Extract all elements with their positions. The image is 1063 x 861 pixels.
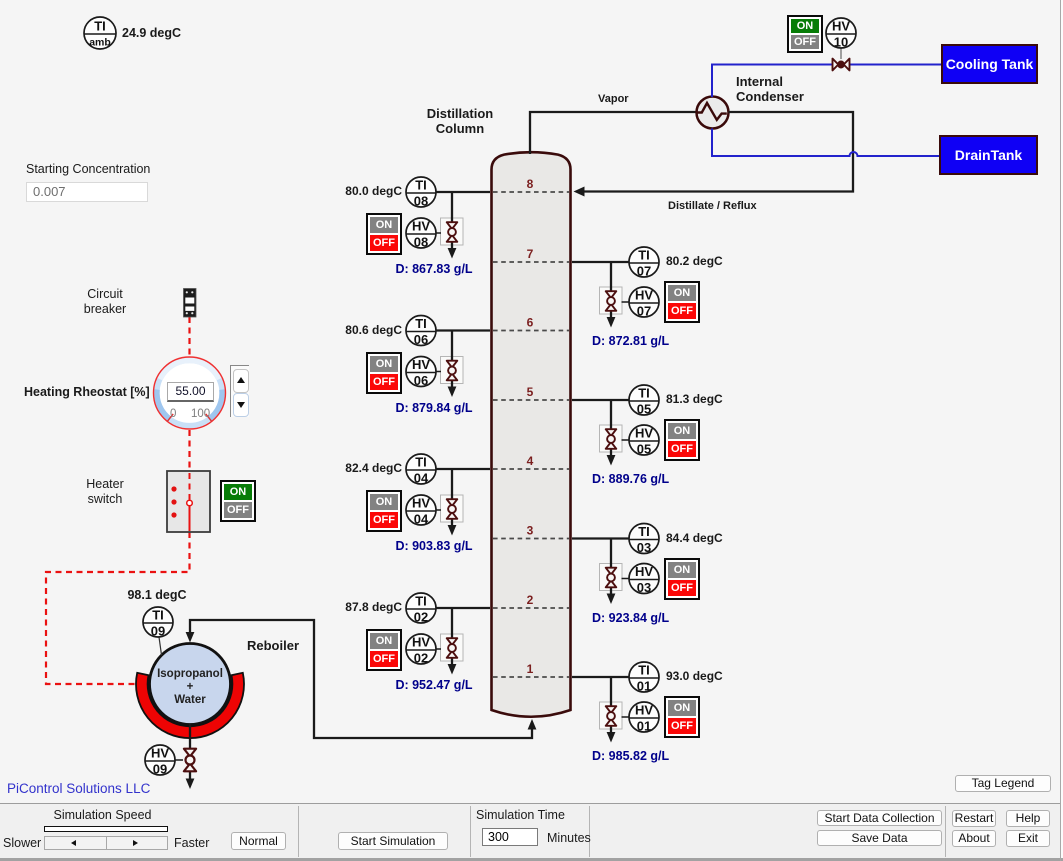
label vapor (598, 93, 648, 105)
switch HV-01 draw-off ON/OFF (664, 696, 700, 738)
input simulation time (482, 828, 538, 846)
label ambient temperature (122, 26, 212, 40)
svg-text:05: 05 (637, 442, 651, 457)
instrument TI-04 (406, 454, 436, 486)
input starting concentration (26, 182, 148, 202)
wire heater circuit (red dashed) breaker to rheostat (188, 317, 190, 356)
label minutes (547, 831, 607, 845)
scrollbar simulation speed (44, 836, 107, 850)
instrument TI-07 (629, 247, 659, 279)
label tray 7 density (592, 334, 722, 348)
slider progress bar (44, 826, 168, 832)
separator at x=589 (589, 806, 590, 857)
svg-text:HV: HV (635, 703, 653, 718)
button tag legend (955, 775, 1051, 792)
switch HV-06 draw-off ON/OFF (366, 352, 402, 394)
label slower (3, 836, 43, 850)
control bar background (0, 803, 1063, 859)
label simulation speed (40, 808, 165, 822)
label simulation time (476, 808, 586, 822)
svg-text:01: 01 (637, 719, 651, 734)
label tray 3 density (592, 611, 722, 625)
instrument HV-07 (629, 287, 659, 319)
svg-text:4: 4 (527, 454, 534, 468)
label tray 2 density (374, 678, 494, 692)
instrument TI-05 (629, 385, 659, 417)
svg-text:5: 5 (527, 385, 534, 399)
svg-text:3: 3 (527, 524, 534, 538)
tank cooling tank (941, 44, 1038, 84)
label tray 3 temperature (666, 531, 766, 545)
label reboiler (247, 638, 307, 653)
separator at x=470 (470, 806, 471, 857)
svg-text:TI: TI (415, 594, 427, 609)
wire tray 3 draw-off (right) (572, 539, 659, 605)
switch HV-10 cooling ON/OFF (787, 15, 823, 53)
svg-text:TI: TI (638, 524, 650, 539)
label tray 7 temperature (666, 254, 766, 268)
svg-text:04: 04 (414, 471, 429, 486)
wire reboiler drain (174, 724, 194, 789)
node tray 7 level (dashed) (493, 247, 569, 262)
svg-text:1: 1 (527, 662, 534, 676)
svg-text:8: 8 (527, 177, 534, 191)
svg-text:TI: TI (638, 386, 650, 401)
svg-text:02: 02 (414, 651, 428, 666)
button save data (817, 830, 942, 846)
wire vapor line (column top to condenser) (530, 112, 696, 154)
node tray 1 level (dashed) (493, 662, 569, 677)
wire heater circuit (red dashed) switch to heating mantle (46, 532, 190, 684)
button help (1006, 810, 1050, 827)
node tray 3 level (dashed) (493, 524, 569, 539)
label rheostat scale 100 (191, 408, 219, 420)
svg-text:TI: TI (638, 248, 650, 263)
wire tray 7 draw-off (right) (572, 262, 659, 328)
instrument TI-09 (reboiler temperature) (143, 607, 173, 639)
valve HV-04 draw-off (447, 499, 458, 519)
button start data collection (817, 810, 942, 826)
tank drain tank (939, 135, 1038, 175)
heater switch box (167, 471, 210, 532)
label tray 8 temperature (318, 184, 402, 198)
svg-text:HV: HV (635, 426, 653, 441)
instrument HV-10 (826, 18, 856, 50)
label internal condenser (736, 74, 846, 104)
node tray 2 level (dashed) (493, 593, 569, 608)
svg-text:HV: HV (635, 288, 653, 303)
separator at x=945 (945, 806, 946, 857)
svg-text:08: 08 (414, 194, 428, 209)
valve HV-09 (reboiler drain) (184, 749, 196, 772)
svg-text:07: 07 (637, 264, 651, 279)
label starting concentration (26, 162, 186, 176)
valve HV-06 draw-off (447, 361, 458, 381)
input rheostat value (167, 382, 214, 402)
window right edge (1060, 0, 1061, 861)
wire heater circuit (red dashed) rheostat to switch (188, 430, 190, 471)
valve HV-05 draw-off (606, 429, 617, 449)
svg-text:03: 03 (637, 540, 651, 555)
valve HV-07 draw-off (606, 291, 617, 311)
switch heater ON/OFF (220, 480, 256, 522)
svg-text:HV: HV (412, 357, 430, 372)
button normal (231, 832, 286, 850)
button restart (952, 810, 996, 827)
label tray 6 density (374, 401, 494, 415)
valve HV-10 (cooling water) (833, 49, 850, 71)
instrument HV-06 (406, 357, 436, 389)
reboiler heating mantle (red) (136, 673, 244, 738)
svg-text:TI: TI (415, 178, 427, 193)
wire cooling water supply (blue) (712, 65, 941, 98)
svg-text:HV: HV (151, 746, 169, 761)
label tray 6 temperature (318, 323, 402, 337)
svg-text:TI: TI (415, 455, 427, 470)
svg-text:07: 07 (637, 304, 651, 319)
instrument TI-01 (629, 662, 659, 694)
label tray 8 density (374, 262, 494, 276)
svg-text:05: 05 (637, 402, 651, 417)
node tray 5 level (dashed) (493, 385, 569, 400)
wire reboiler return / vapor to column bottom (186, 620, 537, 738)
svg-text:amb: amb (89, 37, 111, 49)
switch HV-04 draw-off ON/OFF (366, 490, 402, 532)
wire tray 5 draw-off (right) (572, 400, 659, 466)
button about (952, 830, 996, 847)
node tray 6 level (dashed) (493, 316, 569, 331)
heat exchanger internal condenser (697, 97, 729, 129)
label tray 5 temperature (666, 392, 766, 406)
node tray 4 level (dashed) (493, 454, 569, 469)
instrument TI-amb (ambient temperature) (84, 17, 116, 49)
separator at x=298 (298, 806, 299, 857)
instrument HV-09 (145, 745, 175, 777)
button exit (1006, 830, 1050, 847)
svg-text:06: 06 (414, 332, 428, 347)
label PiControl Solutions LLC (7, 781, 227, 796)
label circuit breaker (55, 287, 155, 317)
svg-text:HV: HV (412, 496, 430, 511)
svg-text:10: 10 (834, 35, 848, 50)
svg-text:Isopropanol: Isopropanol (157, 668, 223, 680)
svg-text:TI: TI (152, 608, 164, 623)
valve HV-03 draw-off (606, 568, 617, 588)
instrument HV-03 (629, 564, 659, 596)
svg-text:08: 08 (414, 235, 428, 250)
instrument HV-04 (406, 495, 436, 527)
svg-text:HV: HV (412, 219, 430, 234)
wire distillate/reflux return line (574, 112, 854, 197)
label distillate / reflux (668, 200, 788, 212)
instrument HV-02 (406, 634, 436, 666)
svg-text:TI: TI (638, 663, 650, 678)
instrument TI-06 (406, 316, 436, 348)
wire tray 1 draw-off (right) (572, 677, 659, 743)
switch HV-02 draw-off ON/OFF (366, 629, 402, 671)
wire condensate to drain tank (blue) (712, 129, 939, 157)
svg-text:HV: HV (832, 19, 850, 34)
svg-text:04: 04 (414, 512, 429, 527)
svg-text:09: 09 (153, 762, 167, 777)
switch HV-03 draw-off ON/OFF (664, 558, 700, 600)
svg-text:6: 6 (527, 316, 534, 330)
label heater switch (55, 477, 155, 507)
button start simulation (338, 832, 448, 850)
svg-text:HV: HV (635, 564, 653, 579)
wire tray 2 draw-off (left) (406, 608, 490, 675)
label heating rheostat (24, 385, 148, 399)
spinner rheostat up/down (230, 365, 249, 417)
valve HV-08 draw-off (447, 222, 458, 242)
svg-text:HV: HV (412, 635, 430, 650)
switch HV-08 draw-off ON/OFF (366, 213, 402, 255)
instrument TI-02 (406, 593, 436, 625)
instrument TI-03 (629, 524, 659, 556)
instrument TI-08 (406, 177, 436, 209)
label reboiler temperature (112, 588, 202, 602)
wire tray 6 draw-off (left) (406, 331, 490, 398)
svg-text:7: 7 (527, 247, 534, 261)
wire tray 4 draw-off (left) (406, 469, 490, 536)
label tray 1 temperature (666, 669, 766, 683)
svg-text:Water: Water (174, 694, 206, 706)
label tray 5 density (592, 472, 722, 486)
label tray 4 density (374, 539, 494, 553)
valve HV-01 draw-off (606, 706, 617, 726)
instrument HV-01 (629, 702, 659, 734)
svg-text:TI: TI (415, 316, 427, 331)
label distillation column (410, 106, 510, 136)
svg-text:01: 01 (637, 679, 651, 694)
distillation column vessel (492, 152, 571, 717)
wire tray 8 draw-off (left) (406, 192, 490, 259)
svg-text:02: 02 (414, 610, 428, 625)
label tray 1 density (592, 749, 722, 763)
reboiler vessel (isopropanol + water) (150, 644, 231, 725)
instrument HV-05 (629, 425, 659, 457)
instrument HV-08 (406, 218, 436, 250)
circuit breaker icon (184, 289, 197, 318)
label faster (174, 836, 214, 850)
svg-text:TI: TI (94, 19, 106, 34)
svg-text:+: + (187, 681, 194, 693)
switch HV-05 draw-off ON/OFF (664, 419, 700, 461)
svg-text:06: 06 (414, 373, 428, 388)
svg-text:03: 03 (637, 580, 651, 595)
valve HV-02 draw-off (447, 638, 458, 658)
label rheostat scale 0 (170, 408, 186, 420)
switch HV-07 draw-off ON/OFF (664, 281, 700, 323)
rheostat dial (heating rheostat) (154, 357, 226, 429)
svg-text:2: 2 (527, 593, 534, 607)
label tray 4 temperature (318, 461, 402, 475)
label tray 2 temperature (318, 600, 402, 614)
node tray 8 level (dashed) (493, 177, 569, 192)
svg-text:09: 09 (151, 624, 165, 639)
wire TI-09 tap (159, 637, 162, 655)
